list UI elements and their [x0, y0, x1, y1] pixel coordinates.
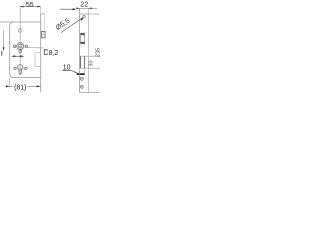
centerline vertical axis — [19, 7, 21, 76]
extension line 55 right / faceplate upper — [40, 7, 42, 14]
faceplate outline — [79, 9, 81, 93]
small hole below follower — [19, 50, 22, 53]
dimension 22 — [76, 7, 97, 9]
latch bolt front view — [80, 33, 85, 44]
cylinder side hole right — [25, 67, 27, 69]
deadbolt front view — [81, 56, 100, 68]
follower centerline horizontal — [13, 45, 29, 47]
bottom screw hole 1 — [80, 77, 83, 80]
extension line for 10 — [84, 68, 86, 75]
leader dia 5,5 — [61, 18, 83, 33]
upper fixing hole — [18, 29, 22, 33]
deadbolt body inside case — [35, 53, 41, 67]
dimension (81) — [9, 78, 11, 88]
case bottom edge — [13, 77, 40, 79]
latch bolt left view — [41, 31, 45, 37]
svg-text:235: 235 — [96, 48, 100, 57]
follower square — [19, 45, 22, 48]
dimension 55 arrows — [20, 6, 41, 8]
left vertical dimension line — [3, 31, 5, 51]
svg-text:55: 55 — [26, 2, 34, 9]
leader for square 8,2 — [25, 47, 44, 49]
svg-text:(81): (81) — [14, 85, 26, 92]
dimension 55 line — [20, 6, 40, 8]
bottom screw hole 2 — [80, 85, 83, 88]
follower side hole right — [25, 45, 28, 48]
case back edge — [10, 22, 14, 78]
label square 8,2 — [44, 50, 58, 57]
svg-text:30: 30 — [89, 60, 95, 66]
cylinder centerline horizontal — [13, 67, 28, 69]
svg-text:22: 22 — [80, 2, 88, 9]
follower side hole left — [13, 45, 16, 48]
svg-text:8,2: 8,2 — [49, 50, 59, 57]
small mark below left arrow — [1, 51, 3, 56]
case top edge with extension to left border — [0, 21, 41, 23]
dim 10 black bar — [77, 73, 85, 75]
cylinder side hole left — [14, 67, 16, 69]
leader 10 — [63, 71, 79, 74]
top screw hole — [83, 15, 86, 18]
horizontal leader arrow top — [60, 8, 74, 10]
follower hub circle — [17, 43, 24, 50]
black dim bar under follower — [11, 55, 24, 57]
euro cylinder hole — [18, 65, 23, 74]
faceplate left view — [40, 14, 42, 92]
